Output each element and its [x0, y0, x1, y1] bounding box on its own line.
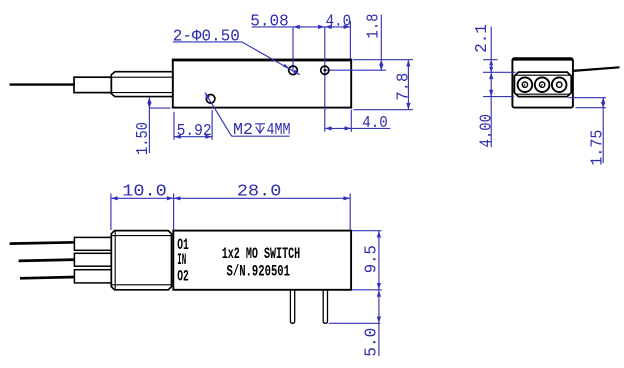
arrow 1.50 top	[147, 98, 151, 104]
arrow 4.00 bottom	[489, 90, 493, 97]
svg-text:5.0: 5.0	[363, 328, 382, 357]
ferrule block (top view)	[111, 231, 171, 290]
extension 10.0 left	[110, 194, 112, 231]
insert inner line top	[516, 74, 570, 76]
block inner line left	[114, 231, 116, 290]
leader arrowhead at hole C	[205, 93, 210, 100]
arrow 5.08 left	[293, 25, 300, 29]
depth symbol	[255, 124, 265, 133]
arrow 10.0 right	[167, 196, 174, 200]
screw hole A	[289, 66, 298, 75]
end view housing top edge thick	[513, 58, 572, 61]
fiber 1 (top view)	[10, 242, 75, 243]
arrow 5.0 bottom	[377, 317, 381, 324]
screw hole B	[321, 66, 329, 74]
extension 5.0 bottom (pin tips)	[329, 322, 380, 324]
extension line through hole B (vertical)	[324, 27, 326, 132]
arrow 1.75 bottom	[601, 102, 605, 107]
svg-text:5.92: 5.92	[177, 122, 212, 141]
arrow 4.0 left	[325, 25, 332, 29]
extension line through hole A	[292, 27, 294, 70]
port 3 inner	[557, 82, 562, 87]
extension tick insert bottom	[483, 96, 514, 98]
extension line body bottom-right corner (for 4.0)	[350, 110, 352, 132]
dimension 10.0/28.0 dim line	[111, 197, 350, 199]
fiber pigtail (side view)	[10, 83, 76, 85]
arrow 9.5 top	[377, 231, 381, 238]
dimension 9.5 dim line	[378, 231, 380, 290]
extension 5.92 left	[173, 112, 175, 140]
extension 5.92 right	[211, 110, 213, 140]
dimension 4.0 (right-bottom) dim line	[325, 127, 391, 129]
svg-text:9.5: 9.5	[362, 245, 381, 273]
dimension 1.75 dim line	[602, 98, 604, 163]
extension 10.0/28.0 middle	[173, 194, 175, 231]
port 2 inner	[539, 82, 544, 87]
leader arrowhead at hole A	[293, 70, 299, 75]
arrow 5.0 top	[377, 290, 381, 297]
extension 28.0 right	[349, 194, 351, 231]
extension line bottom-right (body bottom)	[354, 109, 414, 111]
arrow 9.5 bottom	[377, 283, 381, 290]
arrow 2.1 bottom	[489, 67, 493, 73]
svg-text:O2: O2	[177, 267, 189, 285]
pin 2	[323, 290, 327, 324]
fiber 2 (top view)	[19, 260, 75, 261]
dimension 1.8 dim line	[380, 15, 382, 71]
dimension 5.0 dim line	[378, 290, 380, 356]
end view housing	[512, 58, 573, 107]
arrow 7.8 top	[406, 60, 410, 67]
extension line at body right top corner	[349, 21, 351, 59]
svg-text:28.0: 28.0	[237, 182, 282, 201]
port 3 tick	[556, 83, 558, 87]
arrow 1.50 bottom	[147, 103, 151, 109]
svg-text:10.0: 10.0	[122, 182, 167, 201]
connector insert (stadium)	[514, 72, 571, 97]
fiber 3 (top view)	[20, 277, 75, 278]
port circle 3	[552, 77, 567, 92]
port 2 tick	[540, 84, 542, 87]
fiber out (end view)	[573, 67, 620, 71]
svg-text:1.50: 1.50	[134, 122, 153, 155]
dimension 4.00 dim line	[490, 72, 492, 147]
extension tick insert top	[483, 71, 516, 73]
port 1 tick	[523, 84, 525, 87]
arrow 1.8 bottom	[379, 65, 383, 71]
svg-text:1.75: 1.75	[589, 130, 608, 166]
boot 3 (top view)	[74, 270, 111, 283]
leader mid arrowhead	[283, 64, 289, 69]
extension 9.5 bottom	[352, 289, 382, 291]
extension line top-right (body top)	[353, 59, 413, 61]
arrow 28.0 right	[343, 196, 350, 200]
hole B center dot	[324, 69, 327, 72]
extension 9.5 top	[352, 230, 382, 232]
extension tick 2.1 top	[483, 59, 498, 61]
threaded barrel (side view)	[111, 72, 173, 97]
svg-text:1.8: 1.8	[365, 13, 384, 38]
screw hole C	[206, 95, 215, 104]
pin 1	[290, 290, 294, 324]
port 1 inner	[522, 82, 527, 87]
arrow 4.0b right	[345, 126, 352, 130]
arrow 5.08 right	[318, 25, 325, 29]
label shelf 2-PHI0.50	[173, 41, 242, 43]
dimension line 5.08 / 4.0 (top)	[252, 26, 351, 28]
switch body (side view)	[173, 60, 351, 108]
dimension 7.8 dim line	[407, 60, 409, 110]
dimension 2.1 dim line	[490, 27, 492, 73]
extension line from hole B (horizontal right)	[325, 69, 386, 71]
boot 1 (top view)	[74, 237, 111, 250]
svg-text:1x2 MO SWITCH: 1x2 MO SWITCH	[222, 245, 301, 263]
port circle 2	[535, 77, 550, 92]
svg-text:7.8: 7.8	[395, 73, 414, 101]
arrow 10.0 left	[111, 196, 118, 200]
arrow 28.0 left	[174, 196, 181, 200]
dimension 5.92 dim line	[174, 136, 212, 138]
arrow 4.00 top	[489, 72, 493, 79]
svg-text:M2: M2	[233, 121, 253, 140]
arrow 5.92 left	[174, 135, 181, 139]
block inner line top	[111, 235, 171, 237]
extension 1.50 bottom (body bottom level)	[149, 107, 170, 109]
arrow 4.0b left	[325, 126, 332, 130]
svg-text:2.1: 2.1	[473, 24, 492, 53]
svg-text:4MM: 4MM	[267, 121, 291, 140]
arrow 1.8 top	[379, 60, 383, 66]
svg-text:2-Φ0.50: 2-Φ0.50	[173, 28, 240, 47]
port circle 1	[518, 77, 533, 92]
block inner line bottom	[111, 284, 171, 286]
dimension 1.50 dim line	[148, 97, 150, 153]
switch body (top view)	[173, 231, 351, 290]
extension 1.75 top	[568, 97, 606, 99]
svg-text:4.00: 4.00	[477, 114, 496, 148]
svg-text:4.0: 4.0	[326, 13, 352, 32]
barrel inner line top	[111, 76, 173, 78]
extension 1.75 bottom	[576, 107, 606, 109]
arrow 1.75 top	[601, 98, 605, 104]
svg-text:5.08: 5.08	[250, 13, 288, 32]
arrow 5.92 right	[205, 135, 212, 139]
arrow 2.1 top	[489, 60, 493, 66]
fiber boot (side view)	[74, 77, 111, 92]
barrel inner line bottom	[111, 92, 173, 94]
label shelf M2	[232, 135, 290, 137]
body top edge (thick)	[172, 59, 352, 62]
leader to hole A	[242, 42, 300, 75]
boot 2 (top view)	[74, 253, 111, 266]
leader to hole C	[205, 93, 232, 137]
arrow 7.8 bottom	[406, 103, 410, 110]
insert inner line bottom	[516, 93, 570, 95]
arrow 4.0 right	[344, 25, 351, 29]
svg-text:4.0: 4.0	[362, 114, 388, 133]
svg-text:S/N.920501: S/N.920501	[227, 262, 291, 280]
